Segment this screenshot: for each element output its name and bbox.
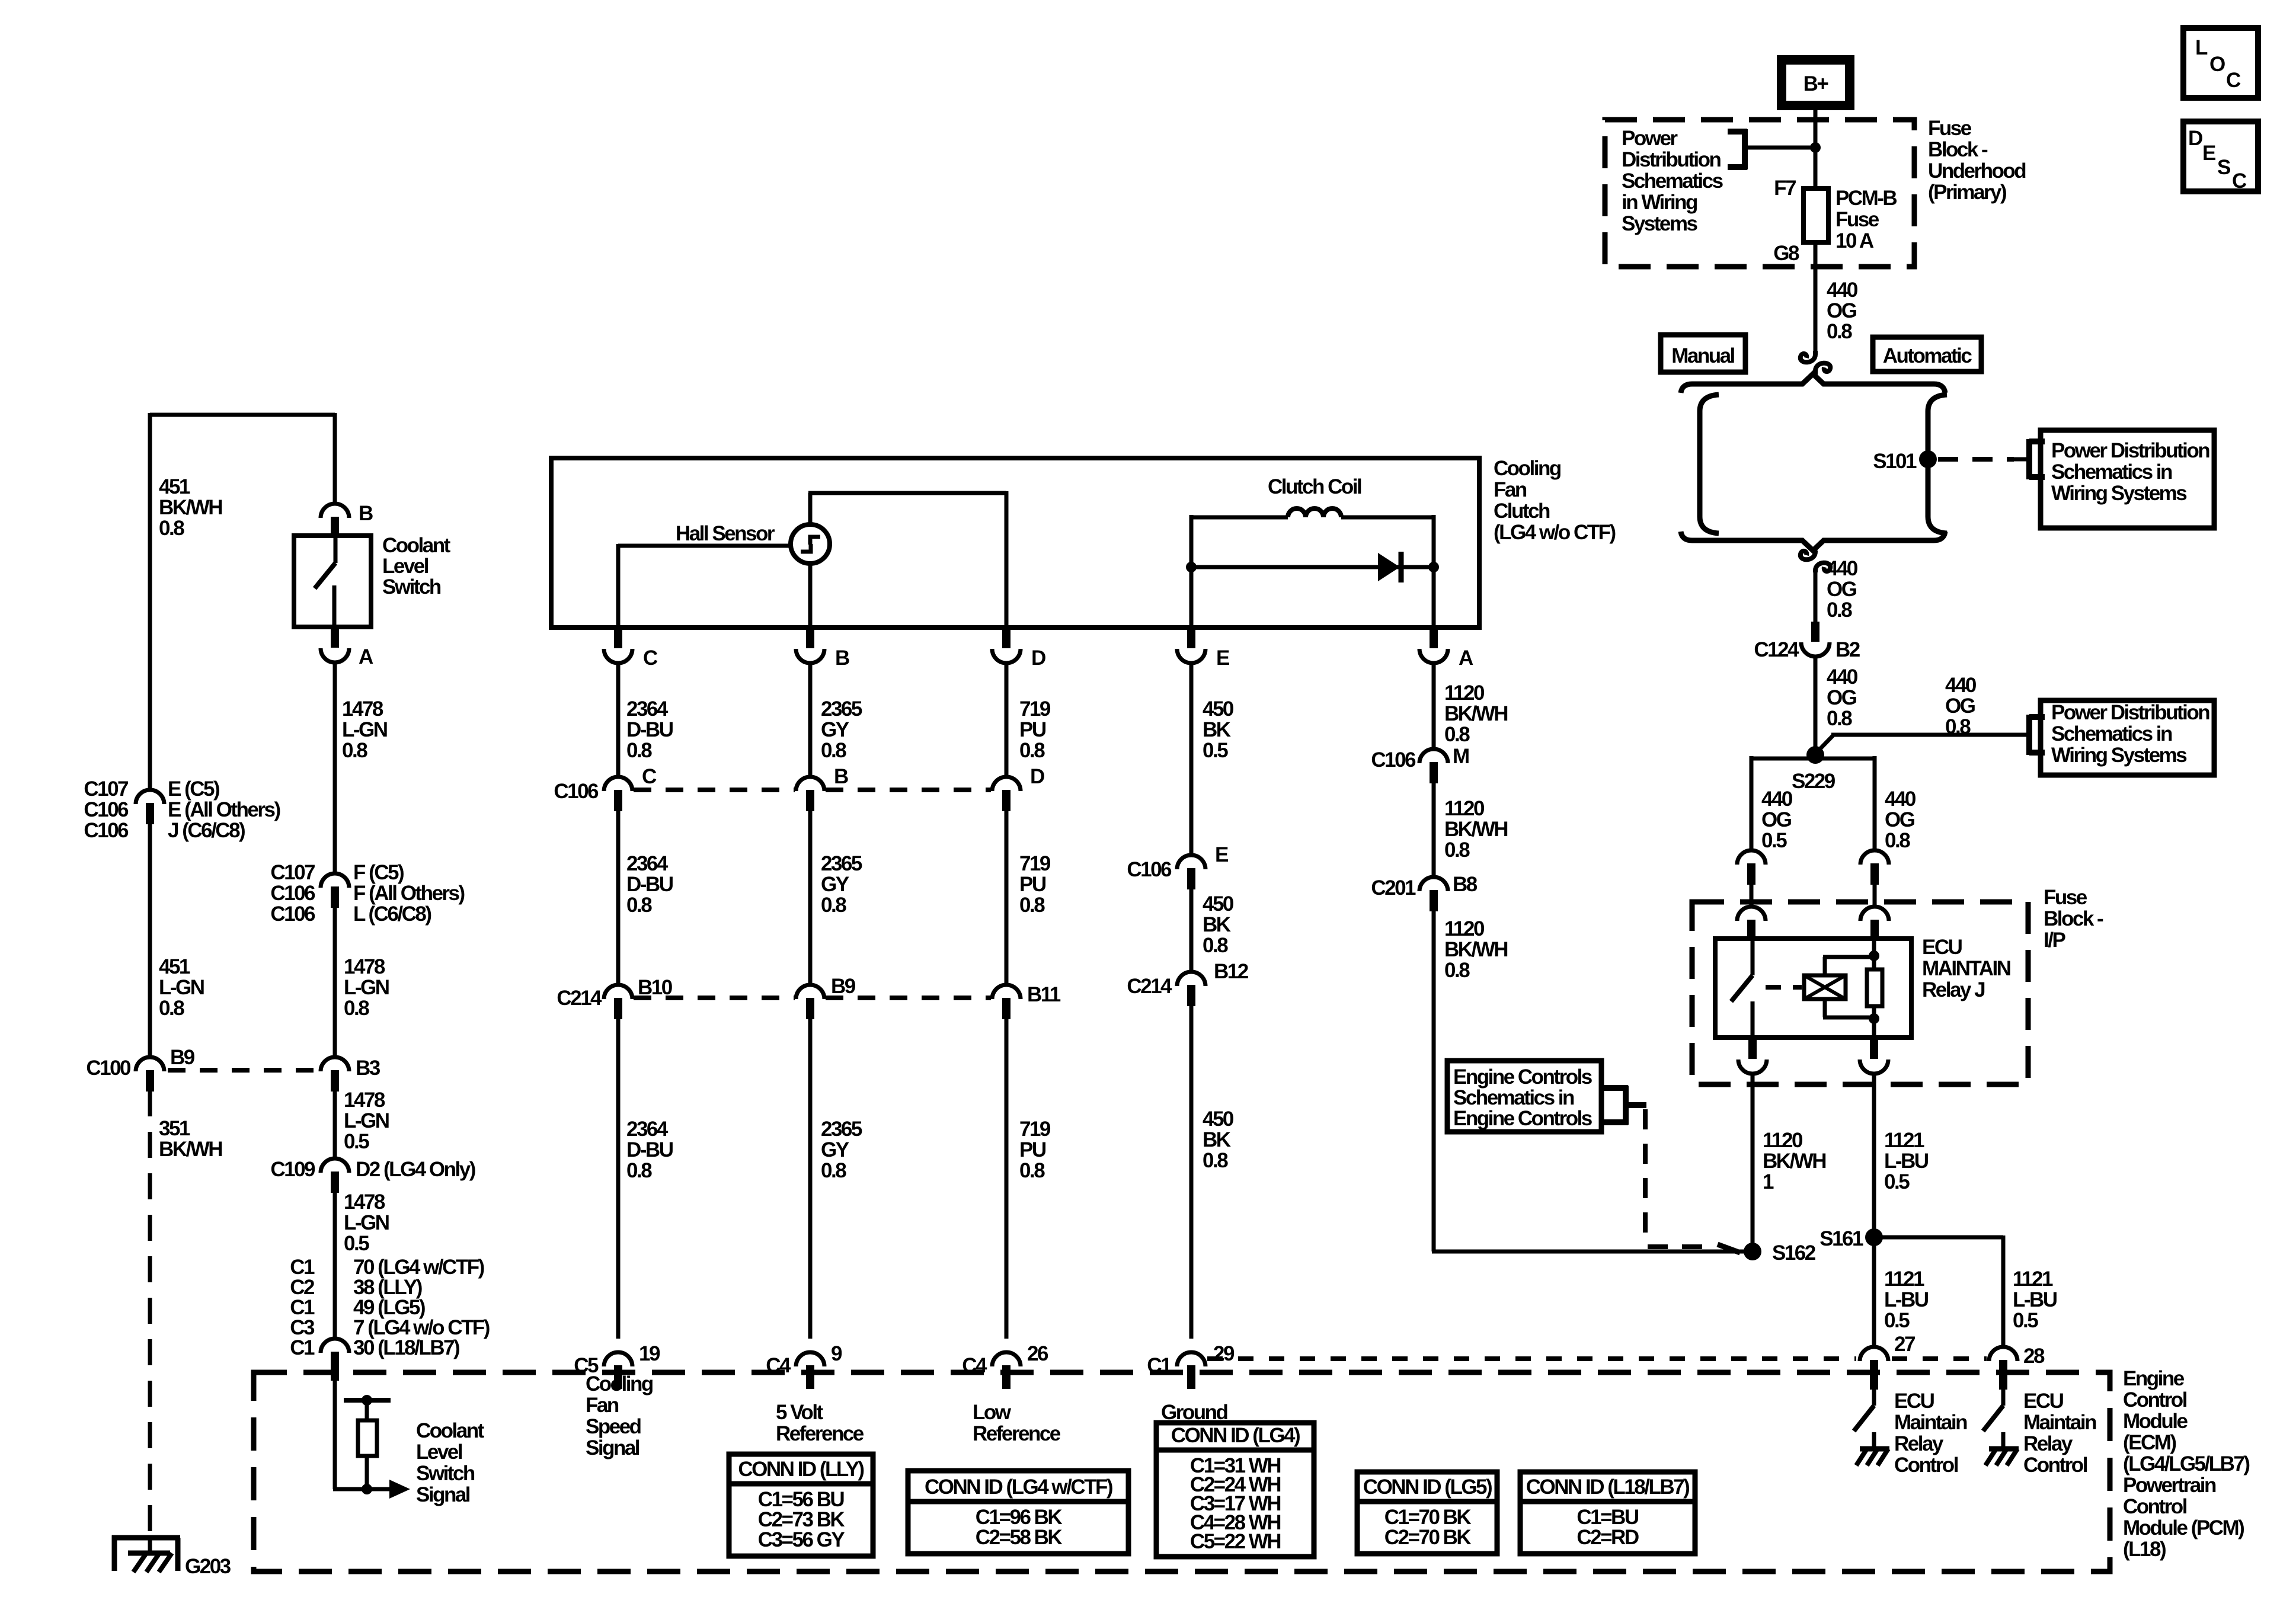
svg-text:L-BU: L-BU bbox=[1884, 1288, 1929, 1311]
svg-text:ECU: ECU bbox=[1922, 936, 1962, 959]
svg-text:C: C bbox=[642, 765, 657, 788]
label DESC bbox=[2188, 127, 2247, 193]
label ECU MAINTAIN Relay J bbox=[1922, 936, 2010, 1001]
wire label 440 OG 0.5 bbox=[1761, 788, 1793, 852]
wire 1478 L-GN mid bbox=[333, 907, 337, 1057]
svg-text:(LG4 w/o CTF): (LG4 w/o CTF) bbox=[1494, 521, 1616, 544]
svg-text:1120: 1120 bbox=[1444, 681, 1485, 705]
relay switch bbox=[1731, 939, 1753, 1038]
wire label 440 OG 0.8 (branch) bbox=[1945, 674, 1977, 738]
connector name C106 (E) bbox=[1127, 858, 1172, 881]
junction node of signal tap bbox=[362, 1484, 372, 1494]
pin label B9 bbox=[170, 1046, 195, 1069]
dashed line B9-B11 bbox=[826, 996, 991, 1000]
wire 1478 L-GN from pin A bbox=[333, 662, 337, 873]
pin number 9 bbox=[831, 1342, 842, 1365]
svg-text:440: 440 bbox=[1827, 557, 1858, 580]
connector C4 pin 26 into ECM bbox=[992, 1352, 1021, 1389]
svg-text:0.8: 0.8 bbox=[626, 739, 652, 762]
table CONN ID (L18/LB7) bbox=[1520, 1472, 1695, 1554]
svg-text:Wiring Systems: Wiring Systems bbox=[2051, 482, 2187, 505]
svg-text:E (All Others): E (All Others) bbox=[168, 798, 280, 821]
svg-text:0.5: 0.5 bbox=[1761, 829, 1787, 852]
svg-text:450: 450 bbox=[1203, 892, 1234, 916]
label Power Distribution Schematics in Wiring Systems (S229) bbox=[2051, 701, 2209, 767]
ECU maintain relay control switch (pin 27) bbox=[1854, 1390, 1874, 1431]
wire 2364 mid bbox=[616, 810, 621, 985]
wire label 1120 BK/WH 0.8 (1) bbox=[1444, 681, 1507, 746]
svg-text:719: 719 bbox=[1019, 697, 1051, 721]
svg-text:(Primary): (Primary) bbox=[1928, 181, 2006, 204]
splice S101 bbox=[1919, 450, 1937, 468]
svg-text:719: 719 bbox=[1019, 1118, 1051, 1141]
connector pin 28 into ECM bbox=[1989, 1347, 2017, 1390]
svg-text:D-BU: D-BU bbox=[626, 1138, 673, 1161]
label Coolant Level Switch Signal bbox=[416, 1419, 485, 1506]
connector C106 pin C bbox=[604, 777, 632, 811]
svg-text:BK/WH: BK/WH bbox=[1444, 702, 1507, 725]
connector name C106 (M) bbox=[1371, 748, 1416, 772]
svg-text:Relay: Relay bbox=[1894, 1432, 1944, 1455]
svg-text:Signal: Signal bbox=[416, 1483, 470, 1506]
svg-text:CONN ID (LG5): CONN ID (LG5) bbox=[1363, 1475, 1492, 1499]
splice S229 bbox=[1806, 746, 1824, 764]
svg-text:C109: C109 bbox=[270, 1158, 315, 1181]
bracket engine controls bbox=[1601, 1086, 1646, 1125]
svg-text:B2: B2 bbox=[1835, 638, 1860, 661]
pin number 26 bbox=[1027, 1342, 1048, 1365]
ground at pin 27 bbox=[1856, 1432, 1889, 1465]
svg-text:C106: C106 bbox=[84, 798, 129, 821]
connector C106 pin D bbox=[992, 777, 1021, 811]
svg-text:Block -: Block - bbox=[1928, 138, 1988, 161]
coolant level switch contacts bbox=[315, 536, 335, 627]
pin label C bbox=[643, 646, 658, 670]
pin number 27 bbox=[1894, 1333, 1915, 1356]
svg-text:CONN ID (LG4 w/CTF): CONN ID (LG4 w/CTF) bbox=[925, 1475, 1112, 1499]
wire label 451 BK/WH 0.8 bbox=[159, 475, 222, 540]
svg-text:451: 451 bbox=[159, 475, 190, 498]
connector C100 pin B9 bbox=[136, 1057, 164, 1092]
svg-text:Fan: Fan bbox=[1494, 478, 1527, 501]
pin label B8 bbox=[1453, 873, 1478, 896]
label PCM-B Fuse 10 A bbox=[1835, 187, 1897, 252]
wire break symbol (mid) bbox=[1801, 550, 1830, 572]
wire coolant level switch signal bbox=[333, 1381, 391, 1489]
label Automatic bbox=[1883, 344, 1972, 367]
svg-text:PCM-B: PCM-B bbox=[1835, 187, 1897, 210]
svg-text:719: 719 bbox=[1019, 852, 1051, 875]
diode node right bbox=[1428, 562, 1439, 572]
wire 1120 mid bbox=[1432, 782, 1436, 877]
splice S162 bbox=[1744, 1243, 1761, 1260]
relay coil wire bottom bbox=[1823, 999, 1874, 1017]
svg-text:Automatic: Automatic bbox=[1883, 344, 1972, 367]
svg-text:L-GN: L-GN bbox=[342, 718, 387, 741]
connector name C109 bbox=[270, 1158, 315, 1181]
svg-text:1478: 1478 bbox=[344, 1190, 385, 1214]
svg-text:BK/WH: BK/WH bbox=[1763, 1150, 1825, 1173]
svg-text:0.8: 0.8 bbox=[1827, 707, 1852, 730]
pin label C (C106) bbox=[642, 765, 657, 788]
resistor in coolant level signal bbox=[358, 1420, 377, 1456]
connector C201 pin B8 bbox=[1419, 877, 1448, 911]
dashed wire 351 BK/WH to ground bbox=[148, 1090, 152, 1535]
svg-text:451: 451 bbox=[159, 955, 190, 978]
relay resistor bbox=[1867, 969, 1882, 1006]
svg-text:PU: PU bbox=[1019, 1138, 1046, 1161]
connector C214 pin B10 bbox=[604, 985, 632, 1019]
svg-text:0.8: 0.8 bbox=[1444, 959, 1470, 982]
svg-text:C106: C106 bbox=[554, 780, 599, 803]
label Power Distribution Schematics in Wiring Systems (fuse block) bbox=[1622, 127, 1723, 235]
svg-text:C5=22 WH: C5=22 WH bbox=[1190, 1530, 1280, 1553]
LOC box bbox=[2183, 28, 2258, 98]
svg-text:L-GN: L-GN bbox=[159, 976, 204, 999]
svg-text:C: C bbox=[2226, 69, 2241, 92]
wire S229 branch to power distribution bbox=[1815, 735, 2014, 754]
svg-text:S101: S101 bbox=[1873, 450, 1917, 473]
svg-text:28: 28 bbox=[2023, 1345, 2045, 1368]
svg-text:Module: Module bbox=[2123, 1410, 2188, 1433]
wire 450 lower bbox=[1189, 1005, 1194, 1339]
relay resistor node bottom bbox=[1869, 1013, 1879, 1024]
svg-text:OG: OG bbox=[1827, 578, 1857, 601]
label B+ bbox=[1803, 72, 1829, 95]
svg-text:MAINTAIN: MAINTAIN bbox=[1922, 957, 2010, 980]
svg-text:Wiring Systems: Wiring Systems bbox=[2051, 744, 2187, 767]
svg-text:C: C bbox=[643, 646, 658, 670]
svg-text:C106: C106 bbox=[270, 902, 315, 926]
svg-text:C106: C106 bbox=[84, 819, 129, 842]
wire label 1121 L-BU 0.5 (pin 28) bbox=[2013, 1267, 2057, 1332]
svg-text:BK: BK bbox=[1203, 1128, 1231, 1151]
svg-text:Power Distribution: Power Distribution bbox=[2051, 439, 2209, 462]
clutch coil bracket right bbox=[1341, 515, 1434, 628]
connector name C5 bbox=[574, 1354, 599, 1377]
svg-text:BK/WH: BK/WH bbox=[159, 1138, 222, 1161]
svg-text:1121: 1121 bbox=[1884, 1129, 1924, 1152]
svg-text:Schematics in: Schematics in bbox=[1453, 1086, 1574, 1109]
svg-text:L (C6/C8): L (C6/C8) bbox=[353, 902, 431, 926]
svg-text:Fuse: Fuse bbox=[2044, 886, 2087, 909]
hall sensor circle bbox=[791, 524, 830, 564]
svg-text:E: E bbox=[1216, 646, 1229, 670]
diode bbox=[1378, 552, 1401, 582]
wire label 1478 L-GN 0.8 bbox=[342, 697, 387, 762]
svg-text:C201: C201 bbox=[1371, 876, 1416, 900]
svg-text:Coolant: Coolant bbox=[382, 534, 451, 557]
wire 451 L-GN bbox=[148, 823, 152, 1057]
connector name C107 C106 C106 (mid) bbox=[270, 861, 315, 926]
svg-text:2364: 2364 bbox=[626, 697, 669, 721]
svg-text:A: A bbox=[1459, 646, 1473, 670]
wire 719 lower bbox=[1005, 1018, 1009, 1339]
connector name C124 bbox=[1754, 638, 1799, 661]
svg-text:C106: C106 bbox=[270, 882, 315, 905]
svg-text:1120: 1120 bbox=[1444, 797, 1485, 820]
battery B+ terminal box bbox=[1782, 60, 1850, 105]
svg-text:C124: C124 bbox=[1754, 638, 1799, 661]
table CONN ID (LG4 w/CTF) bbox=[908, 1471, 1128, 1554]
connector pin 27 into ECM bbox=[1860, 1347, 1888, 1390]
svg-text:Schematics in: Schematics in bbox=[2051, 460, 2172, 484]
wire label 1120 BK/WH 0.8 (2) bbox=[1444, 797, 1507, 862]
hall sensor symbol bbox=[801, 537, 820, 552]
svg-text:L-GN: L-GN bbox=[344, 1211, 389, 1234]
connector C214 pin B12 bbox=[1177, 972, 1205, 1006]
svg-text:G8: G8 bbox=[1773, 242, 1799, 265]
svg-text:I/P: I/P bbox=[2044, 929, 2065, 952]
automatic path bracket bbox=[1928, 395, 1947, 533]
wire label 719 PU 0.8 (1) bbox=[1019, 697, 1051, 762]
clutch coil label bbox=[1268, 475, 1361, 498]
svg-text:440: 440 bbox=[1761, 788, 1793, 811]
connector inside fuse block left bbox=[1737, 907, 1766, 940]
fuse G8 label bbox=[1773, 242, 1799, 265]
svg-text:ECU: ECU bbox=[1894, 1390, 1934, 1413]
svg-text:E: E bbox=[1215, 843, 1228, 866]
pin label D (C106) bbox=[1030, 765, 1044, 788]
connector C4 pin 9 into ECM bbox=[796, 1352, 824, 1389]
wire 1478 L-GN lower bbox=[333, 1090, 337, 1158]
svg-text:1478: 1478 bbox=[344, 1089, 385, 1112]
splice S161 bbox=[1865, 1228, 1883, 1246]
label Ground bbox=[1161, 1401, 1227, 1424]
svg-text:450: 450 bbox=[1203, 697, 1234, 721]
svg-text:E: E bbox=[2202, 142, 2215, 165]
connector pin 30 into ECM bbox=[321, 1339, 349, 1381]
ECM pin list 70/38/49/7/30 bbox=[353, 1256, 490, 1359]
pin label A bbox=[359, 645, 373, 668]
pin number 28 bbox=[2023, 1345, 2045, 1368]
pin number 29 bbox=[1213, 1342, 1235, 1365]
svg-text:Power: Power bbox=[1622, 127, 1678, 150]
svg-text:0.8: 0.8 bbox=[1203, 934, 1228, 957]
label Engine Controls Schematics in Engine Controls bbox=[1453, 1065, 1593, 1130]
pin label B11 bbox=[1027, 983, 1061, 1006]
dashed line C106 C-B bbox=[634, 788, 795, 792]
svg-text:CONN ID (LLY): CONN ID (LLY) bbox=[738, 1458, 864, 1481]
connector into fuse block left bbox=[1737, 850, 1766, 885]
svg-text:1: 1 bbox=[1763, 1170, 1774, 1193]
wire 1121 L-BU to S161 bbox=[1872, 1073, 1876, 1347]
manual path bracket bbox=[1700, 395, 1719, 533]
svg-text:OG: OG bbox=[1827, 299, 1857, 322]
wire label 2364 D-BU 0.8 (1) bbox=[626, 697, 673, 762]
label Cooling Fan Speed Signal bbox=[586, 1372, 653, 1459]
svg-text:0.8: 0.8 bbox=[1019, 894, 1045, 917]
wire C124 to S229 bbox=[1814, 657, 1818, 755]
pin label B3 bbox=[356, 1057, 380, 1080]
junction node on B+ feed bbox=[1810, 142, 1821, 153]
svg-text:2365: 2365 bbox=[821, 1118, 862, 1141]
svg-text:E (C5): E (C5) bbox=[168, 777, 219, 801]
svg-text:M: M bbox=[1453, 745, 1469, 768]
svg-text:Engine: Engine bbox=[2123, 1367, 2185, 1390]
label LOC bbox=[2195, 36, 2241, 92]
table CONN ID (LLY) bbox=[729, 1454, 873, 1556]
wire label 1120 BK/WH 0.8 (3) bbox=[1444, 917, 1507, 982]
wire label 351 BK/WH bbox=[159, 1117, 222, 1161]
pin label B bbox=[835, 646, 849, 670]
svg-text:0.8: 0.8 bbox=[1019, 739, 1045, 762]
svg-text:A: A bbox=[359, 645, 373, 668]
ECU maintain relay control switch (pin 28) bbox=[1983, 1390, 2003, 1431]
svg-text:B9: B9 bbox=[831, 975, 856, 998]
pin list F (C5) / F (All Others) / L (C6/C8) bbox=[353, 861, 465, 926]
engine controls schematics box bbox=[1447, 1061, 1601, 1132]
svg-text:D2 (LG4 Only): D2 (LG4 Only) bbox=[356, 1158, 475, 1181]
svg-text:S161: S161 bbox=[1819, 1227, 1863, 1250]
svg-text:PU: PU bbox=[1019, 718, 1046, 741]
pin label B (C106) bbox=[834, 765, 848, 788]
svg-text:Engine Controls: Engine Controls bbox=[1453, 1065, 1593, 1089]
connector pin E of cooling fan clutch bbox=[1177, 628, 1205, 663]
svg-text:Signal: Signal bbox=[586, 1436, 639, 1459]
svg-text:0.8: 0.8 bbox=[1444, 838, 1470, 862]
connector inside fuse block right bbox=[1860, 907, 1889, 940]
pin label B10 bbox=[638, 976, 673, 999]
svg-text:ECU: ECU bbox=[2023, 1390, 2064, 1413]
hall sensor loop to pin D bbox=[808, 491, 1006, 628]
connector name C1 bbox=[1147, 1354, 1172, 1377]
svg-text:B: B bbox=[835, 646, 849, 670]
label 5 Volt Reference bbox=[776, 1401, 864, 1445]
dotted line from pin 29 to ECU relay pins bbox=[1207, 1356, 1987, 1361]
wire 1120 lower to S162 bbox=[1432, 910, 1751, 1251]
svg-text:Block -: Block - bbox=[2044, 907, 2103, 930]
label Engine Control Module (ECM) PCM bbox=[2123, 1367, 2249, 1561]
svg-text:D: D bbox=[1030, 765, 1044, 788]
pin label D2 (LG4 Only) bbox=[356, 1158, 475, 1181]
svg-text:C3=56 GY: C3=56 GY bbox=[758, 1528, 845, 1551]
svg-text:B+: B+ bbox=[1803, 72, 1829, 95]
svg-text:0.5: 0.5 bbox=[2013, 1309, 2038, 1332]
label S229 bbox=[1792, 770, 1835, 793]
connector C106 pin M bbox=[1419, 749, 1448, 783]
wire break symbol (top) bbox=[1801, 351, 1830, 375]
pin label B2 bbox=[1835, 638, 1860, 661]
svg-text:GY: GY bbox=[821, 718, 849, 741]
svg-text:2365: 2365 bbox=[821, 852, 862, 875]
svg-text:B: B bbox=[834, 765, 848, 788]
svg-text:Hall Sensor: Hall Sensor bbox=[676, 522, 775, 545]
svg-text:29: 29 bbox=[1213, 1342, 1235, 1365]
svg-text:0.8: 0.8 bbox=[821, 894, 846, 917]
dashed line C106 B-D bbox=[826, 788, 991, 792]
svg-text:9: 9 bbox=[831, 1342, 842, 1365]
relay output pin right bbox=[1860, 1038, 1888, 1074]
wire label 2365 GY 0.8 (3) bbox=[821, 1118, 862, 1182]
svg-text:0.8: 0.8 bbox=[821, 1159, 846, 1182]
svg-text:BK/WH: BK/WH bbox=[1444, 818, 1507, 841]
svg-text:0.8: 0.8 bbox=[1885, 829, 1910, 852]
arrow coolant level switch signal bbox=[389, 1480, 410, 1499]
pin number 19 bbox=[639, 1342, 660, 1365]
wire label 450 BK 0.8 (2) bbox=[1203, 1108, 1234, 1172]
hall sensor wire to pin B bbox=[808, 563, 813, 628]
svg-text:Fuse: Fuse bbox=[1928, 117, 1972, 140]
pin label M bbox=[1453, 745, 1469, 768]
svg-text:B9: B9 bbox=[170, 1046, 195, 1069]
svg-text:B11: B11 bbox=[1027, 983, 1061, 1006]
pin label B12 bbox=[1214, 960, 1249, 983]
fuse block I/P dashed box bbox=[1692, 902, 2028, 1084]
svg-text:GY: GY bbox=[821, 873, 849, 896]
svg-text:0.5: 0.5 bbox=[1884, 1170, 1910, 1193]
wire 2365 lower bbox=[808, 1018, 813, 1339]
wire label 1120 BK/WH 1 bbox=[1763, 1129, 1825, 1193]
svg-text:C107: C107 bbox=[84, 777, 128, 801]
table CONN ID (LG5) bbox=[1357, 1472, 1497, 1554]
label S162 bbox=[1772, 1241, 1816, 1265]
svg-text:(LG4/LG5/LB7): (LG4/LG5/LB7) bbox=[2123, 1452, 2249, 1475]
DESC box bbox=[2183, 121, 2258, 191]
relay coil box bbox=[1804, 975, 1846, 999]
svg-text:0.8: 0.8 bbox=[159, 997, 184, 1020]
power distribution schematics box (S101) bbox=[2041, 430, 2214, 528]
svg-text:Powertrain: Powertrain bbox=[2123, 1474, 2216, 1497]
label Fuse Block - I/P bbox=[2044, 886, 2103, 952]
svg-text:1120: 1120 bbox=[1763, 1129, 1803, 1152]
svg-text:C106: C106 bbox=[1371, 748, 1416, 772]
svg-text:Reference: Reference bbox=[776, 1422, 864, 1445]
connector C106 pin B bbox=[796, 777, 824, 811]
svg-text:BK: BK bbox=[1203, 913, 1231, 936]
wire B+ to fuse bbox=[1814, 105, 1818, 188]
svg-text:1121: 1121 bbox=[1884, 1267, 1924, 1291]
svg-text:Relay J: Relay J bbox=[1922, 978, 1985, 1001]
svg-text:0.8: 0.8 bbox=[1203, 1149, 1228, 1172]
diode line bbox=[1191, 565, 1434, 569]
svg-text:0.8: 0.8 bbox=[159, 517, 184, 540]
connector name C107 C106 C106 (left) bbox=[84, 777, 129, 842]
wire 1120 from pin A bbox=[1432, 662, 1436, 749]
svg-text:0.8: 0.8 bbox=[1827, 598, 1852, 622]
svg-text:0.8: 0.8 bbox=[344, 997, 369, 1020]
dashed link B9 to B3 bbox=[168, 1068, 318, 1073]
svg-text:CONN ID (L18/LB7): CONN ID (L18/LB7) bbox=[1526, 1475, 1689, 1499]
wire label 440 OG 0.8 (top) bbox=[1827, 279, 1858, 343]
svg-text:0.5: 0.5 bbox=[1884, 1309, 1910, 1332]
svg-text:0.5: 0.5 bbox=[344, 1232, 369, 1255]
svg-text:(L18): (L18) bbox=[2123, 1538, 2166, 1561]
svg-text:C: C bbox=[2232, 169, 2247, 193]
svg-text:Fan: Fan bbox=[586, 1394, 619, 1417]
pin label E bbox=[1216, 646, 1229, 670]
pin label D bbox=[1031, 646, 1045, 670]
wire 1120 BK/WH 1 to S162 bbox=[1751, 1073, 1755, 1251]
svg-text:Fuse: Fuse bbox=[1835, 208, 1879, 231]
connector name C4 bbox=[766, 1354, 791, 1377]
svg-text:OG: OG bbox=[1885, 808, 1915, 831]
svg-text:440: 440 bbox=[1945, 674, 1977, 697]
svg-text:Clutch Coil: Clutch Coil bbox=[1268, 475, 1361, 498]
connector pin A of coolant level switch bbox=[321, 627, 349, 662]
svg-text:1120: 1120 bbox=[1444, 917, 1485, 940]
svg-text:Cooling: Cooling bbox=[1494, 457, 1561, 480]
wire label 1478 L-GN 0.5 lower bbox=[344, 1190, 389, 1255]
svg-text:30 (L18/LB7): 30 (L18/LB7) bbox=[353, 1336, 459, 1359]
wire into fuse block left bbox=[1750, 884, 1754, 907]
brace over manual/automatic split bbox=[1681, 374, 1945, 393]
svg-text:Level: Level bbox=[382, 555, 428, 578]
svg-text:Relay: Relay bbox=[2023, 1432, 2073, 1455]
svg-text:C2=58 BK: C2=58 BK bbox=[976, 1526, 1063, 1549]
svg-text:Switch: Switch bbox=[416, 1462, 475, 1485]
svg-text:Engine Controls: Engine Controls bbox=[1453, 1107, 1593, 1130]
